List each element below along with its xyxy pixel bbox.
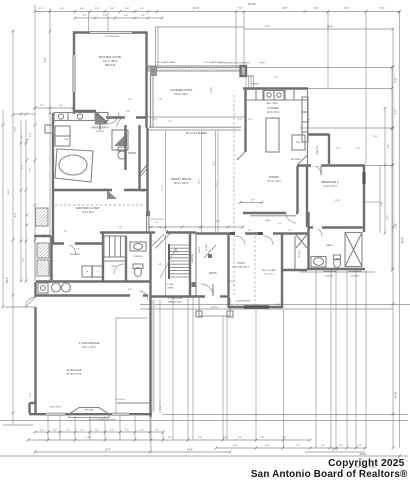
- bedroom3 west wall: [227, 233, 229, 308]
- svg-text:PANTRY: PANTRY: [316, 145, 319, 154]
- hall door arc: [286, 213, 296, 223]
- dining dim line: [240, 202, 262, 204]
- hall dim ticks: [150, 226, 153, 229]
- wash tub 1: [52, 283, 61, 292]
- newel post: [192, 282, 196, 287]
- left dim vertical x13: [12, 30, 14, 425]
- door gap bath2: [313, 226, 322, 229]
- master suite east wall: [145, 32, 147, 129]
- hall dim line y227: [148, 226, 243, 228]
- bath2 window 1: [324, 268, 336, 271]
- svg-text:2'-8": 2'-8": [260, 437, 264, 439]
- svg-text:3'-1": 3'-1": [278, 223, 282, 225]
- svg-text:POWDER: POWDER: [134, 256, 144, 258]
- svg-text:3'-4": 3'-4": [110, 8, 115, 10]
- svg-text:7'-4": 7'-4": [76, 249, 80, 251]
- great room south wall: [243, 212, 298, 214]
- svg-text:San Antonio Board of Realtors®: San Antonio Board of Realtors®: [251, 469, 408, 480]
- closet stipple box: [36, 208, 49, 226]
- svg-text:4" LIP AT DOOR: 4" LIP AT DOOR: [168, 297, 183, 300]
- north wall windows: [230, 232, 242, 235]
- svg-text:DINING: DINING: [269, 175, 279, 179]
- svg-text:4'-6": 4'-6": [59, 105, 63, 107]
- master west window: [73, 55, 75, 92]
- right dim vertical x399: [399, 12, 401, 448]
- svg-text:2'-0": 2'-0": [125, 430, 129, 432]
- dim vertical x236: [235, 12, 237, 68]
- svg-text:5'-4": 5'-4": [380, 8, 385, 10]
- bedroom3 south window: [244, 305, 269, 308]
- bath linen cabinet: [55, 126, 70, 146]
- patio beam line: [145, 116, 245, 118]
- svg-text:2'-0": 2'-0": [104, 189, 108, 191]
- stair break lines: [152, 230, 168, 246]
- extension x336: [335, 270, 337, 448]
- svg-text:5'-8": 5'-8": [251, 200, 255, 202]
- svg-text:5'-8": 5'-8": [233, 445, 238, 447]
- line y128 right: [300, 127, 392, 129]
- front wall east of door: [220, 295, 229, 297]
- master south wall east part: [106, 116, 147, 118]
- svg-text:BEDROOM 2: BEDROOM 2: [322, 180, 339, 184]
- dim row y440: [28, 439, 310, 441]
- wall below post b: [152, 76, 154, 127]
- svg-text:2'-2": 2'-2": [155, 222, 159, 224]
- great room south window line: [250, 215, 296, 217]
- svg-text:7'-10": 7'-10": [355, 148, 361, 150]
- dim vertical x50: [49, 8, 51, 281]
- svg-text:5'-4": 5'-4": [64, 231, 68, 233]
- wall below post a: [150, 76, 152, 127]
- svg-text:7'-0": 7'-0": [395, 109, 398, 114]
- left dim stub y425: [3, 424, 33, 426]
- svg-text:11'-4 x 14'-0: 11'-4 x 14'-0: [267, 180, 281, 183]
- long horizontal y305: [140, 304, 410, 306]
- long horizontal y420: [0, 420, 408, 422]
- garage service door arc: [26, 297, 36, 307]
- svg-text:2'-8": 2'-8": [103, 15, 108, 17]
- bath2 vanity: [311, 257, 326, 268]
- double oven: [264, 91, 274, 101]
- svg-text:7'-10": 7'-10": [85, 437, 91, 439]
- bed3 door arcs: [236, 236, 245, 245]
- dimension line top second: [35, 11, 399, 13]
- laundry hatched box 1: [37, 243, 49, 258]
- garage west wall: [34, 307, 36, 413]
- bath tub: [55, 149, 93, 182]
- mud sink: [38, 283, 48, 293]
- garage window west: [46, 413, 65, 415]
- svg-text:STUDY: STUDY: [237, 262, 246, 265]
- dim row y108: [35, 107, 73, 109]
- svg-text:2'-8": 2'-8": [30, 168, 32, 172]
- svg-text:1'-0": 1'-0": [140, 430, 144, 432]
- svg-text:TILE FLR: TILE FLR: [96, 131, 105, 133]
- svg-text:7'-10": 7'-10": [372, 136, 378, 138]
- extension x256: [255, 310, 257, 440]
- great room slider top: [149, 126, 241, 128]
- svg-text:9'-8": 9'-8": [223, 437, 228, 439]
- great room slider bottom: [149, 129, 241, 131]
- svg-text:3'-0": 3'-0": [238, 437, 242, 439]
- porch south line: [199, 315, 230, 317]
- dim vertical x392: [391, 68, 393, 271]
- dim stub y165: [365, 165, 392, 167]
- extension x223: [222, 316, 224, 440]
- extension x188: [187, 296, 189, 440]
- bath2 south wall: [307, 268, 365, 270]
- svg-text:BED 3 SLATE: BED 3 SLATE: [262, 269, 276, 272]
- svg-text:PLUMB: PLUMB: [167, 284, 174, 286]
- svg-text:BAY SLAB: BAY SLAB: [85, 409, 94, 412]
- bath east wall: [138, 125, 140, 190]
- svg-text:2640 SH: 2640 SH: [351, 276, 360, 278]
- bay slab step below: [69, 414, 109, 417]
- bath2 door arc: [314, 228, 322, 236]
- dimension line upper right: [244, 28, 393, 30]
- dining ne diagonal: [298, 156, 307, 165]
- mud west wall: [102, 233, 104, 281]
- bath2 north wall: [308, 226, 365, 228]
- svg-text:2'-6": 2'-6": [155, 430, 159, 432]
- closet X: [296, 235, 307, 249]
- door gap master bath: [125, 116, 136, 119]
- svg-text:2'-8": 2'-8": [125, 8, 130, 10]
- left stub y307: [5, 306, 35, 308]
- garage west wall upper: [34, 282, 36, 297]
- master bath door arc: [117, 118, 126, 127]
- svg-text:7'-10": 7'-10": [281, 437, 287, 439]
- fireplace corner: [141, 164, 148, 173]
- svg-text:7'-4": 7'-4": [389, 145, 391, 150]
- svg-text:UP: UP: [158, 264, 162, 266]
- svg-text:(OPTIONAL BED 3): (OPTIONAL BED 3): [233, 266, 250, 269]
- svg-text:4'-6": 4'-6": [80, 8, 85, 10]
- great room east wall: [307, 88, 309, 212]
- svg-text:21'-4": 21'-4": [105, 449, 111, 451]
- svg-text:7'-4": 7'-4": [238, 7, 243, 10]
- svg-text:13'-4": 13'-4": [396, 223, 398, 229]
- svg-text:CLOSET: CLOSET: [299, 249, 301, 257]
- second floor outline dashed: [233, 95, 235, 295]
- svg-text:2'-8": 2'-8": [118, 227, 122, 229]
- svg-text:7'-6": 7'-6": [168, 121, 172, 123]
- svg-text:3'-0": 3'-0": [40, 430, 44, 432]
- closet diagonal: [204, 245, 216, 258]
- svg-text:1'-8": 1'-8": [140, 8, 145, 10]
- closet south wall: [283, 269, 307, 271]
- extension x173: [172, 296, 174, 440]
- svg-text:2'-8": 2'-8": [95, 8, 100, 10]
- door gap bed2: [311, 164, 321, 167]
- long horizontal y309: [140, 308, 393, 310]
- svg-text:4'-0" HIGH WROUGHT IRON FENCE: 4'-0" HIGH WROUGHT IRON FENCE: [220, 63, 251, 65]
- svg-text:5'-2": 5'-2": [336, 148, 340, 150]
- kitchen east counter: [302, 97, 308, 142]
- bath2 toilet: [334, 255, 341, 260]
- svg-text:SLOPE: SLOPE: [211, 86, 213, 93]
- svg-text:9'-8 x 11'-0: 9'-8 x 11'-0: [82, 211, 94, 214]
- left dim vertical x35: [34, 5, 36, 240]
- svg-text:GREAT ROOM: GREAT ROOM: [171, 177, 192, 181]
- bath west wall x53: [52, 113, 54, 243]
- svg-text:12'-0": 12'-0": [229, 281, 234, 283]
- svg-text:7'-4": 7'-4": [296, 445, 300, 447]
- extension x316: [315, 270, 317, 448]
- plant shelf hatched wall: [148, 66, 243, 71]
- refrigerator: [292, 135, 305, 150]
- extension x366: [365, 270, 367, 448]
- kitchen north wall: [243, 87, 308, 89]
- bedroom2 east wall: [363, 165, 365, 232]
- svg-text:1'-8": 1'-8": [141, 15, 146, 17]
- svg-text:6'-8": 6'-8": [126, 111, 130, 113]
- svg-text:15'-4": 15'-4": [327, 27, 333, 29]
- garage west jog: [30, 402, 36, 404]
- dim vertical x328: [327, 12, 329, 89]
- extension x283: [283, 310, 285, 448]
- svg-text:13'-7 x 23'-0: 13'-7 x 23'-0: [82, 346, 96, 349]
- patio roof line: [155, 26, 244, 28]
- svg-text:1 CAR GARAGE: 1 CAR GARAGE: [79, 341, 100, 345]
- wash tub 2: [62, 283, 71, 292]
- svg-text:12'-0 x 15'-4: 12'-0 x 15'-4: [267, 112, 280, 114]
- svg-text:ENTRY: ENTRY: [209, 272, 217, 275]
- bath niche: [45, 125, 53, 133]
- master bath angled door: [95, 112, 107, 123]
- dining east wall: [296, 166, 298, 213]
- svg-text:2'-0": 2'-0": [248, 119, 252, 121]
- svg-text:9'-8": 9'-8": [395, 77, 398, 82]
- patio east post: [241, 66, 247, 76]
- svg-text:20'-8 x 10'-0: 20'-8 x 10'-0: [174, 93, 188, 96]
- pantry east wall: [328, 134, 330, 164]
- svg-text:16'-7": 16'-7": [199, 178, 201, 184]
- bedroom3 south wall: [228, 306, 283, 308]
- svg-text:5'-8": 5'-8": [198, 437, 202, 439]
- kitchen upper cabinets line: [247, 99, 307, 101]
- svg-text:2640 SH: 2640 SH: [325, 276, 334, 278]
- bedroom2 north wall: [297, 164, 365, 166]
- garage south wall: [29, 413, 152, 415]
- svg-text:TUB: TUB: [64, 139, 69, 141]
- garage west jog lower: [28, 403, 30, 413]
- freezer nook north wall: [34, 235, 51, 237]
- mud lockers: [104, 236, 126, 261]
- bedroom2 east window: [362, 172, 365, 184]
- svg-text:2-2640 SH WDW: 2-2640 SH WDW: [236, 301, 251, 303]
- closet east wall: [307, 212, 309, 270]
- garage inner line y318: [116, 317, 147, 319]
- svg-text:14'-4 x 16'-8: 14'-4 x 16'-8: [103, 59, 118, 63]
- svg-text:80'-4": 80'-4": [402, 237, 405, 243]
- spine thin continuation b: [148, 216, 150, 233]
- svg-text:3'-8": 3'-8": [274, 77, 278, 79]
- extension x151: [150, 310, 152, 452]
- door gap laundry: [64, 242, 75, 245]
- svg-text:7'-6": 7'-6": [158, 99, 162, 101]
- porch column left: [196, 311, 202, 317]
- door gap bed3a: [235, 232, 245, 235]
- central spine wall x148: [146, 128, 148, 212]
- svg-text:7'-4": 7'-4": [23, 258, 25, 262]
- bay slab bump: [69, 408, 109, 415]
- master closet north wall: [53, 189, 147, 191]
- optional wall dashed: [254, 236, 256, 305]
- svg-text:2'-8": 2'-8": [30, 393, 32, 398]
- master suite west wall: [73, 32, 75, 115]
- svg-text:16'-4": 16'-4": [193, 7, 199, 10]
- svg-text:8'-8": 8'-8": [15, 213, 17, 218]
- bottom long line y456: [0, 455, 408, 457]
- svg-text:44'-8": 44'-8": [395, 392, 398, 398]
- svg-text:Copyright 2025: Copyright 2025: [328, 458, 405, 469]
- house north line right: [308, 88, 392, 90]
- bedroom3 east wall: [281, 233, 283, 308]
- svg-text:5'-4": 5'-4": [83, 15, 88, 17]
- door gap hall: [155, 231, 166, 234]
- closet shelf dashed: [55, 204, 145, 206]
- door gap great-hall: [286, 212, 296, 215]
- roof line y68: [148, 67, 392, 69]
- svg-text:3'-4": 3'-4": [321, 445, 325, 447]
- door gap garage: [130, 294, 143, 297]
- bath vanity counter: [54, 113, 108, 121]
- svg-text:2'-8": 2'-8": [80, 430, 84, 432]
- dim row y448: [216, 447, 366, 449]
- extension x331: [330, 270, 332, 448]
- interior dim line x201: [201, 131, 203, 233]
- svg-text:16'-0x16'-0 SETBACK GAR DOOR: 16'-0x16'-0 SETBACK GAR DOOR: [89, 418, 116, 421]
- svg-text:HANDRAIL: HANDRAIL: [191, 254, 194, 263]
- svg-text:16'-0 x 8'-0 SLIDER: 16'-0 x 8'-0 SLIDER: [186, 132, 207, 135]
- svg-text:MASTER CLOSET: MASTER CLOSET: [76, 206, 100, 210]
- kitchen sw diagonal: [237, 152, 245, 160]
- extension x227: [226, 316, 228, 440]
- svg-text:4'-6": 4'-6": [60, 8, 65, 10]
- master suite north wall: [73, 31, 147, 33]
- svg-text:9'-0": 9'-0": [128, 289, 132, 291]
- svg-text:11'-0 x 13'-4: 11'-0 x 13'-4: [323, 185, 337, 188]
- svg-text:1'-6": 1'-6": [153, 119, 157, 121]
- dim vertical x244: [243, 12, 245, 68]
- bedroom3 north wall: [196, 232, 309, 234]
- door gap bed3b: [263, 232, 273, 235]
- laundry-mud south wall: [36, 280, 151, 282]
- cased opening line b: [217, 131, 219, 233]
- svg-text:5'-0": 5'-0": [124, 15, 129, 17]
- svg-text:8'-0": 8'-0": [214, 161, 216, 165]
- svg-text:WALL OVENS: WALL OVENS: [266, 102, 278, 105]
- svg-text:5'-0": 5'-0": [388, 215, 390, 220]
- svg-text:7'-4": 7'-4": [265, 27, 270, 29]
- svg-text:1/2 WALL: 1/2 WALL: [205, 243, 208, 250]
- dim row y452 right: [305, 451, 365, 453]
- svg-text:5'-8": 5'-8": [309, 118, 311, 122]
- svg-text:1'-0": 1'-0": [53, 430, 57, 432]
- bedroom2 west wall: [306, 165, 308, 227]
- svg-text:60'-4": 60'-4": [6, 277, 9, 283]
- entry door arc: [201, 284, 213, 296]
- door gap closet: [112, 189, 124, 192]
- dimension line top third: [75, 17, 162, 19]
- wc west wall: [124, 125, 126, 170]
- svg-text:LAUNDRY: LAUNDRY: [70, 253, 81, 256]
- svg-text:KITCHEN: KITCHEN: [267, 106, 279, 110]
- svg-text:PORCH: PORCH: [210, 307, 218, 309]
- powder-stairs wall / garage east wall: [149, 233, 151, 417]
- garage inner line x116: [115, 318, 117, 413]
- svg-text:4'-8": 4'-8": [216, 221, 220, 223]
- svg-text:5'-0": 5'-0": [168, 437, 173, 439]
- bedroom2 door arc: [311, 165, 321, 175]
- dim vertical x366: [365, 12, 367, 165]
- dim row y114: [13, 113, 35, 115]
- pantry north wall: [308, 133, 329, 135]
- svg-text:SLOPE SLAB: SLOPE SLAB: [67, 369, 82, 372]
- svg-text:MASTER BATH: MASTER BATH: [92, 127, 109, 130]
- svg-text:3'-4": 3'-4": [358, 445, 362, 447]
- svg-text:3'-6": 3'-6": [238, 119, 242, 121]
- svg-text:1640 SL WDW: 1640 SL WDW: [49, 407, 61, 409]
- svg-text:3'-1": 3'-1": [248, 230, 252, 232]
- hall north wall y232: [100, 231, 196, 233]
- dryer: [93, 266, 103, 277]
- svg-text:MASTER SUITE: MASTER SUITE: [99, 55, 121, 59]
- interior dim line x165: [165, 131, 167, 296]
- svg-text:24'-8": 24'-8": [8, 189, 10, 195]
- master north window: [90, 32, 132, 34]
- garage door lip: [117, 402, 151, 404]
- svg-text:AT MIN SLOPE: AT MIN SLOPE: [66, 373, 82, 376]
- svg-text:36'-10": 36'-10": [359, 454, 366, 456]
- svg-text:3'-0": 3'-0": [40, 105, 44, 107]
- svg-text:2'-8": 2'-8": [30, 133, 32, 138]
- shower corner fill: [114, 133, 127, 146]
- right dim vertical x393: [392, 29, 394, 448]
- garage north wall: [36, 294, 149, 296]
- svg-text:11'-4": 11'-4": [332, 449, 338, 451]
- svg-text:3'-0": 3'-0": [39, 8, 44, 10]
- garage right line x160: [159, 300, 161, 413]
- svg-text:2'-0": 2'-0": [66, 430, 70, 432]
- svg-text:2'-8": 2'-8": [160, 406, 162, 410]
- powder west wall: [125, 236, 127, 281]
- interior small texts: [43, 111, 311, 304]
- svg-text:9'-4": 9'-4": [15, 127, 17, 132]
- svg-text:18'-0 x 20'-8: 18'-0 x 20'-8: [174, 181, 189, 185]
- stair up arrow: [160, 248, 176, 278]
- svg-text:6'-0": 6'-0": [130, 189, 134, 191]
- wdw dim ext a: [88, 12, 90, 31]
- svg-text:7'-4": 7'-4": [382, 202, 384, 207]
- shower stall: [112, 130, 128, 150]
- svg-text:HALL: HALL: [266, 219, 271, 222]
- svg-text:CHASE: CHASE: [167, 287, 174, 290]
- laundry north wall: [51, 242, 103, 244]
- svg-text:5'-8": 5'-8": [22, 165, 24, 169]
- porch column right: [227, 311, 233, 317]
- svg-text:4'-0": 4'-0": [314, 8, 319, 10]
- svg-text:36 RANGE: 36 RANGE: [251, 83, 260, 86]
- extension x356: [355, 270, 357, 448]
- svg-text:3'-0": 3'-0": [22, 135, 24, 139]
- svg-text:14'-2": 14'-2": [162, 185, 164, 191]
- cased opening line a: [215, 131, 217, 233]
- garage passage arc: [139, 291, 148, 300]
- long horizontal y414: [163, 414, 408, 416]
- toilet: [118, 147, 126, 151]
